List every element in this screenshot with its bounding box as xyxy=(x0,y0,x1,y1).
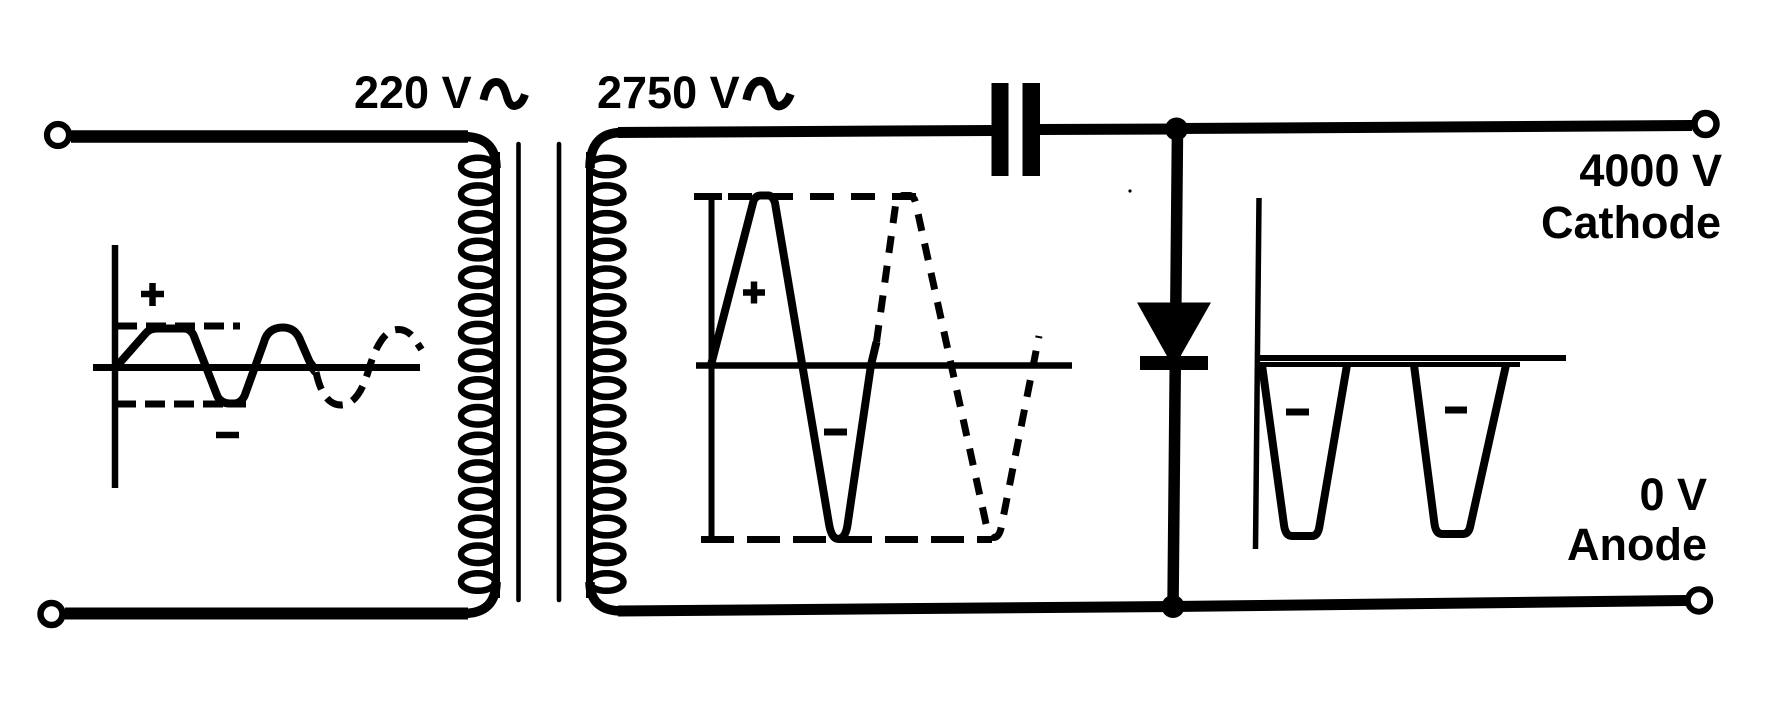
waveform graph 2: zero axis xyxy=(696,362,1072,369)
waveform graph 2: solid triangle trace xyxy=(711,196,877,540)
waveform graph 2: plus annotation xyxy=(743,282,765,304)
label: Cathode xyxy=(1541,197,1721,248)
terminal: 4000 V cathode output xyxy=(1695,113,1717,135)
label: Anode xyxy=(1567,519,1707,570)
node A (junction, cathode rail) xyxy=(1165,118,1188,141)
wire: diode branch vertical xyxy=(1173,129,1178,606)
waveform graph 1: positive peak dashed level xyxy=(117,323,240,330)
wire: transformer secondary bottom to node B to anode terminal xyxy=(590,582,1686,611)
svg-text:4000 V: 4000 V xyxy=(1579,145,1722,196)
wire: AC input bottom to transformer primary xyxy=(65,582,496,614)
wire: AC input top to transformer primary xyxy=(71,137,496,169)
label: 0 V xyxy=(1639,469,1707,520)
waveform graph 1: minus annotation xyxy=(216,432,239,439)
diode D1 xyxy=(1137,303,1211,371)
wire: capacitor C1 to node A xyxy=(1040,124,1177,136)
waveform graph 3: second negative half-cycle valley xyxy=(1414,365,1506,534)
transformer T1 primary winding xyxy=(461,152,497,598)
waveform graph 2: positive peak dashed level xyxy=(728,193,923,200)
scan speck artifact xyxy=(1128,189,1131,192)
waveform graph 2: secondary voltage, vertical axis with end ticks xyxy=(694,196,722,541)
svg-text:Anode: Anode xyxy=(1567,519,1707,570)
waveform graph 3: minus annotation second valley xyxy=(1445,407,1467,414)
svg-text:2750 V: 2750 V xyxy=(597,67,740,118)
wire: node A to cathode output terminal xyxy=(1177,126,1692,129)
waveform graph 3: minus annotation first valley xyxy=(1286,409,1309,416)
label: 4000 V xyxy=(1579,145,1722,196)
waveform graph 3: output voltage, vertical axis xyxy=(1256,198,1260,549)
label: AC symbol for 220 V xyxy=(484,82,526,106)
waveform graph 2: minus annotation xyxy=(824,429,847,436)
terminal: 0 V anode output xyxy=(1688,589,1710,611)
label: 220 V xyxy=(354,67,472,118)
capacitor C1 xyxy=(992,83,1041,176)
transformer T1 core xyxy=(519,144,560,600)
node B (junction, anode rail) xyxy=(1162,595,1185,618)
transformer T1 secondary winding xyxy=(590,152,624,598)
label: AC symbol for 2750 V xyxy=(747,81,791,106)
terminal: AC input bottom-left xyxy=(41,603,63,625)
waveform graph 1: plus annotation xyxy=(141,283,164,306)
svg-text:0 V: 0 V xyxy=(1639,469,1707,520)
waveform graph 1: 220 V input, vertical axis xyxy=(112,245,119,488)
waveform graph 1: zero axis xyxy=(93,364,420,371)
waveform graph 3: first negative half-cycle valley xyxy=(1262,365,1347,536)
svg-text:220 V: 220 V xyxy=(354,67,472,118)
label: 2750 V xyxy=(597,67,740,118)
waveform graph 1: negative peak dashed level xyxy=(116,401,246,408)
svg-text:Cathode: Cathode xyxy=(1541,197,1721,248)
waveform graph 1: solid sine trace xyxy=(116,328,311,404)
waveform graph 3: zero axis xyxy=(1256,355,1566,361)
waveform graph 1: dashed sine continuation xyxy=(316,329,422,405)
waveform graph 2: negative peak dashed level xyxy=(701,536,992,543)
waveform graph 3: clipped output trace top level xyxy=(1259,362,1520,367)
waveform graph 2: dashed triangle continuation xyxy=(877,196,1040,538)
terminal: AC input top-left xyxy=(47,124,69,146)
waveform graph 1: diamond node on zero crossing xyxy=(307,359,319,375)
wire: transformer secondary top to capacitor C1 xyxy=(590,131,992,169)
